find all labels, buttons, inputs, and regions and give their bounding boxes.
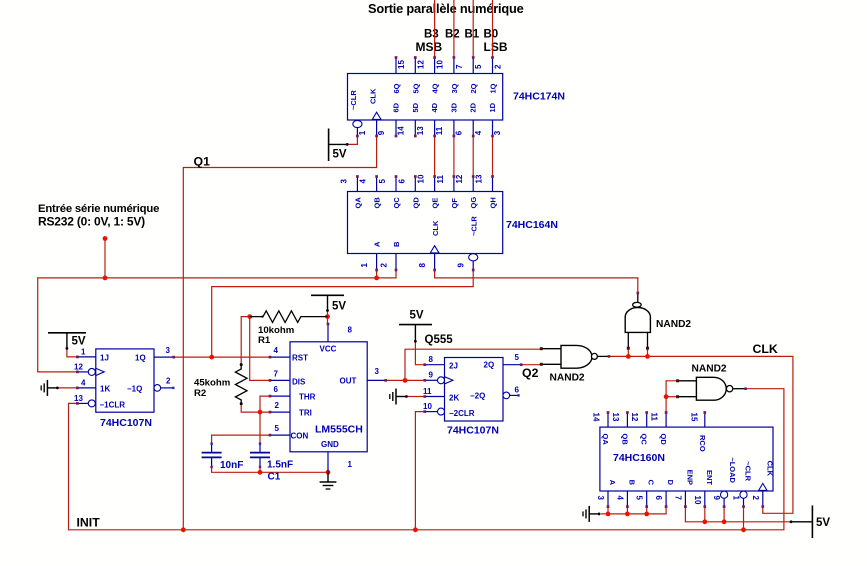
- svg-text:QD: QD: [659, 434, 668, 446]
- svg-text:7: 7: [274, 370, 279, 379]
- svg-text:QA: QA: [601, 434, 610, 446]
- svg-text:QF: QF: [450, 198, 459, 209]
- svg-text:3: 3: [166, 346, 171, 355]
- wire R1 left node to U3.DIS: [250, 317, 270, 381]
- 5V supply at FF2: [399, 310, 432, 343]
- svg-text:1: 1: [358, 130, 367, 135]
- svg-text:QE: QE: [431, 198, 440, 209]
- svg-text:12: 12: [416, 60, 425, 69]
- svg-text:2J: 2J: [449, 362, 458, 371]
- svg-text:15: 15: [689, 413, 698, 422]
- svg-text:1: 1: [360, 263, 369, 268]
- svg-text:10: 10: [423, 402, 432, 411]
- svg-text:13: 13: [74, 394, 83, 403]
- svg-text:74HC107N: 74HC107N: [100, 417, 152, 429]
- svg-text:10: 10: [436, 60, 445, 69]
- svg-text:4: 4: [359, 179, 368, 184]
- wire net Q1 : U1 CLK to INIT rail: [183, 136, 376, 530]
- svg-text:2: 2: [751, 496, 760, 501]
- svg-text:4: 4: [274, 346, 279, 355]
- svg-text:VCC: VCC: [320, 344, 337, 353]
- svg-text:B3: B3: [424, 29, 439, 41]
- junction U2.A: [374, 276, 379, 281]
- svg-text:2K: 2K: [449, 394, 459, 403]
- IC U4 74HC160N counter: [592, 411, 775, 508]
- svg-text:B1: B1: [465, 29, 480, 41]
- svg-text:5: 5: [515, 353, 520, 362]
- svg-text:3: 3: [339, 179, 348, 184]
- wire 5V to FF2.2J: [415, 341, 424, 364]
- junction NAND1 input B: [645, 354, 650, 359]
- svg-text:QD: QD: [411, 197, 420, 209]
- svg-text:DIS: DIS: [292, 378, 306, 387]
- svg-text:1K: 1K: [100, 385, 110, 394]
- junction VCC node: [325, 314, 330, 319]
- wire serial input to U2.A/B and FF1 clock: [38, 270, 396, 372]
- svg-text:RST: RST: [292, 354, 308, 363]
- svg-text:4Q: 4Q: [431, 83, 440, 93]
- svg-text:2Q: 2Q: [469, 83, 478, 93]
- svg-text:4: 4: [474, 130, 483, 135]
- svg-text:4D: 4D: [430, 102, 439, 112]
- gate NAND1 (inverter, output up to U2 clock): [625, 293, 691, 350]
- svg-text:12: 12: [455, 174, 464, 183]
- svg-text:1Q: 1Q: [489, 83, 498, 93]
- svg-text:A: A: [608, 480, 617, 486]
- svg-text:11: 11: [436, 174, 445, 183]
- svg-text:5: 5: [635, 496, 644, 501]
- 5V supply at U1: [329, 129, 349, 162]
- svg-text:2D: 2D: [469, 102, 478, 112]
- svg-text:QC: QC: [392, 197, 401, 209]
- junction RST row: [209, 355, 214, 360]
- wire net INIT rail with FF1.~1CLR and NAND3 output: [69, 389, 784, 530]
- svg-text:QC: QC: [640, 434, 649, 446]
- wire serial input stub: [104, 239, 106, 278]
- svg-text:5V: 5V: [816, 517, 830, 529]
- svg-text:5V: 5V: [410, 310, 424, 322]
- svg-text:5: 5: [378, 179, 387, 184]
- junction R1-R2-DIS node: [247, 314, 252, 319]
- svg-text:74HC174N: 74HC174N: [513, 91, 565, 103]
- svg-text:74HC160N: 74HC160N: [613, 452, 665, 464]
- svg-text:9: 9: [377, 130, 386, 135]
- wire B3 output vertical: [434, 0, 436, 58]
- svg-text:GND: GND: [321, 440, 339, 449]
- svg-text:NAND2: NAND2: [692, 364, 727, 375]
- svg-text:3: 3: [596, 496, 605, 501]
- svg-text:QA: QA: [353, 197, 362, 209]
- svg-text:14: 14: [592, 413, 601, 422]
- gate NAND3 (inverter on U4.QD -> INIT): [676, 364, 746, 401]
- svg-text:−2CLR: −2CLR: [449, 409, 475, 418]
- svg-text:11: 11: [423, 387, 432, 396]
- wire 5V to FF1.1J: [67, 348, 78, 357]
- svg-text:~CLR: ~CLR: [744, 461, 753, 481]
- wire ground to FF2.2K: [406, 396, 424, 398]
- svg-text:CLK: CLK: [368, 88, 377, 104]
- svg-text:6: 6: [274, 385, 279, 394]
- svg-text:Sortie parallèle numérique: Sortie parallèle numérique: [368, 1, 524, 16]
- svg-text:6: 6: [397, 179, 406, 184]
- svg-text:5V: 5V: [332, 301, 346, 313]
- resistor R1 10kohm: [250, 311, 328, 346]
- svg-text:7: 7: [673, 496, 682, 501]
- svg-text:−1CLR: −1CLR: [100, 401, 126, 410]
- junction FF2 clear-INIT: [413, 527, 418, 532]
- svg-text:ENP: ENP: [685, 470, 694, 485]
- junction Q555 node: [403, 378, 408, 383]
- 5V supply at U4: [790, 506, 831, 539]
- junction C1 bottom: [258, 470, 263, 475]
- svg-text:NAND2: NAND2: [550, 373, 585, 384]
- svg-text:Q1: Q1: [194, 155, 211, 169]
- IC FF2 74HC107N (right JK flip-flop): [423, 353, 523, 437]
- wire U2.CLK to NAND1 output: [435, 270, 638, 293]
- svg-text:OUT: OUT: [340, 377, 357, 386]
- ground below U3 (555): [320, 472, 337, 489]
- svg-text:RCO: RCO: [698, 435, 707, 452]
- capacitor 10nF: [202, 443, 244, 472]
- svg-text:3D: 3D: [449, 102, 458, 112]
- svg-text:QG: QG: [469, 197, 478, 209]
- IC U3 LM555CH timer: [269, 323, 387, 473]
- svg-text:10: 10: [417, 174, 426, 183]
- svg-text:6: 6: [455, 130, 464, 135]
- svg-text:9: 9: [457, 263, 466, 268]
- svg-text:RS232 (0: 0V, 1: 5V): RS232 (0: 0V, 1: 5V): [38, 215, 145, 229]
- svg-text:13: 13: [611, 413, 620, 422]
- IC U2 74HC164N shift register: [339, 174, 558, 271]
- svg-text:13: 13: [416, 126, 425, 135]
- svg-text:1D: 1D: [488, 102, 497, 112]
- wire NAND1 input stubs: [627, 349, 629, 356]
- wire net Q2 : FF2.2Q to NAND2 input: [521, 364, 541, 366]
- svg-text:CON: CON: [291, 432, 309, 441]
- wire B2 output vertical: [453, 0, 455, 58]
- wire FF1.1Q to U3.RST: [174, 356, 270, 358]
- wire FF2.~2CLR to INIT rail: [415, 412, 424, 530]
- wire 5V rail to U4 ENP ENT ~LOAD: [685, 507, 791, 522]
- junction U4.~LOAD 5V: [722, 519, 727, 524]
- svg-text:3Q: 3Q: [450, 83, 459, 93]
- svg-text:Entrée série numérique: Entrée série numérique: [38, 203, 159, 215]
- svg-text:8: 8: [348, 326, 353, 335]
- ground at FF1.1K: [41, 380, 59, 396]
- svg-text:QH: QH: [489, 197, 498, 208]
- svg-text:CLK: CLK: [765, 461, 774, 477]
- svg-text:~LOAD: ~LOAD: [728, 457, 737, 483]
- svg-text:LM555CH: LM555CH: [315, 424, 363, 436]
- junction Q1-INIT: [181, 527, 186, 532]
- svg-text:D: D: [666, 480, 675, 486]
- svg-text:74HC107N: 74HC107N: [447, 425, 499, 437]
- svg-text:4: 4: [615, 496, 624, 501]
- junction U4.ENT 5V: [702, 519, 707, 524]
- svg-text:QB: QB: [620, 434, 629, 446]
- svg-text:R1: R1: [258, 335, 271, 346]
- svg-text:NAND2: NAND2: [656, 319, 691, 330]
- svg-text:−1Q: −1Q: [127, 385, 142, 394]
- svg-text:1: 1: [81, 348, 86, 357]
- wire B0 output vertical: [492, 0, 494, 58]
- svg-text:6D: 6D: [392, 102, 401, 112]
- svg-text:11: 11: [435, 126, 444, 135]
- svg-text:CLK: CLK: [753, 342, 778, 356]
- junction TRI node: [258, 410, 263, 415]
- junction serial stub: [103, 276, 108, 281]
- svg-text:10: 10: [693, 496, 702, 505]
- svg-text:5: 5: [275, 424, 280, 433]
- svg-text:1Q: 1Q: [135, 354, 146, 363]
- IC FF1 74HC107N (left JK flip-flop): [74, 346, 175, 429]
- svg-text:9: 9: [429, 371, 434, 380]
- svg-text:5: 5: [474, 64, 483, 69]
- svg-text:6: 6: [654, 496, 663, 501]
- svg-text:6: 6: [515, 386, 520, 395]
- svg-text:5Q: 5Q: [411, 83, 420, 93]
- wire U1.4D to U2.QE: [434, 136, 436, 177]
- svg-text:1.5nF: 1.5nF: [267, 460, 293, 471]
- svg-text:~CLR: ~CLR: [349, 90, 358, 110]
- NAND3 output pin dot: [744, 387, 747, 390]
- svg-text:12: 12: [630, 413, 639, 422]
- gate NAND2 (middle, Q555/Q2 -> CLK): [540, 345, 609, 383]
- svg-text:B2: B2: [445, 29, 460, 41]
- svg-text:8: 8: [429, 355, 434, 364]
- svg-text:~CLR: ~CLR: [470, 216, 479, 236]
- ground at U4 inputs: [583, 506, 600, 522]
- svg-text:6Q: 6Q: [392, 83, 401, 93]
- svg-text:4: 4: [81, 379, 86, 388]
- 5V supply at U3 (555): [311, 295, 346, 312]
- svg-text:15: 15: [397, 60, 406, 69]
- junction U3.GND: [326, 470, 331, 475]
- junction U4.C gnd: [644, 512, 649, 517]
- svg-text:5V: 5V: [333, 149, 347, 161]
- svg-text:74HC164N: 74HC164N: [506, 219, 558, 231]
- svg-text:10nF: 10nF: [220, 460, 243, 471]
- junction U4.A gnd: [606, 512, 611, 517]
- svg-text:13: 13: [475, 174, 484, 183]
- svg-text:R2: R2: [194, 388, 206, 399]
- wire R1 left to R2 top: [241, 317, 250, 365]
- svg-text:C: C: [647, 480, 656, 486]
- svg-text:3: 3: [375, 367, 380, 376]
- wire TRI node to U3.THR: [260, 396, 270, 412]
- svg-text:5V: 5V: [72, 336, 86, 348]
- junction U4 clear-INIT: [741, 527, 746, 532]
- wire U1 pin1 to 5V: [347, 136, 357, 144]
- IC U1 74HC174N hex D flip-flop: [348, 56, 565, 137]
- svg-text:Q555: Q555: [425, 334, 454, 346]
- wire U4.QD to NAND3 inputs: [666, 381, 677, 413]
- svg-text:MSB: MSB: [416, 40, 443, 54]
- svg-text:2Q: 2Q: [484, 361, 495, 370]
- serial input terminal: [103, 236, 108, 241]
- svg-text:7: 7: [455, 64, 464, 69]
- wire U3.CON to C2 top: [212, 435, 270, 444]
- svg-text:1J: 1J: [100, 354, 109, 363]
- wire U1.3D to U2.QF: [453, 136, 455, 177]
- wire net Q555 : U3.OUT to FF2 clock and NAND2 input: [386, 379, 425, 381]
- capacitor C1 1.5nF: [250, 443, 293, 483]
- NAND1 output pin dot: [637, 292, 640, 295]
- wire U2.~CLR to node at RST row: [212, 270, 474, 357]
- wire ground rail to U4 A B C D: [601, 507, 666, 514]
- svg-text:9: 9: [712, 496, 721, 501]
- wire R2 bottom to U3.TRI node: [241, 404, 270, 412]
- svg-text:Q2: Q2: [522, 366, 539, 380]
- svg-text:B: B: [627, 480, 636, 486]
- wire net CLK : NAND2 output to U4.CLK: [609, 356, 793, 513]
- svg-text:1: 1: [732, 496, 741, 501]
- wire TRI node to C1 top: [259, 412, 261, 444]
- svg-text:TRI: TRI: [299, 409, 312, 418]
- svg-text:12: 12: [74, 363, 83, 372]
- svg-text:5D: 5D: [411, 102, 420, 112]
- wire cap bottoms to U3.GND: [212, 467, 328, 472]
- svg-text:8: 8: [418, 263, 427, 268]
- ground at FF2.2K: [390, 389, 408, 405]
- svg-text:B: B: [392, 241, 401, 247]
- wire U1.2D to U2.QG: [472, 136, 474, 177]
- wire C1 bottom stub: [259, 467, 261, 472]
- svg-text:C1: C1: [268, 472, 281, 483]
- svg-text:QB: QB: [373, 197, 382, 209]
- wire ground to FF1.1K: [57, 387, 77, 389]
- svg-text:LSB: LSB: [484, 40, 508, 54]
- wire U4.~CLR to INIT rail: [743, 507, 745, 530]
- svg-text:2: 2: [275, 401, 280, 410]
- wire 5V to U3.VCC: [327, 311, 329, 325]
- svg-text:2: 2: [380, 263, 389, 268]
- svg-text:CLK: CLK: [431, 220, 440, 236]
- 5V supply at FF1: [48, 333, 86, 350]
- NAND2 output pin dot: [608, 355, 611, 358]
- svg-text:A: A: [373, 241, 382, 247]
- svg-text:14: 14: [397, 126, 406, 135]
- resistor R2 45kohm: [194, 363, 247, 405]
- svg-text:45kohm: 45kohm: [194, 378, 230, 389]
- svg-text:1: 1: [348, 460, 353, 469]
- wire U1.1D to U2.QH: [492, 136, 494, 177]
- svg-text:2: 2: [166, 377, 171, 386]
- svg-text:3: 3: [493, 130, 502, 135]
- svg-text:THR: THR: [299, 393, 316, 402]
- svg-text:2: 2: [494, 64, 503, 69]
- junction U4.B gnd: [625, 512, 630, 517]
- wire B1 output vertical: [472, 0, 474, 58]
- svg-text:B0: B0: [484, 29, 499, 41]
- svg-text:INIT: INIT: [77, 516, 101, 530]
- svg-text:ENT: ENT: [705, 470, 714, 485]
- svg-text:11: 11: [650, 413, 659, 422]
- junction QD node: [664, 394, 669, 399]
- svg-text:−2Q: −2Q: [470, 392, 485, 401]
- junction NAND1 input A: [626, 354, 631, 359]
- wire U2.A stub: [376, 270, 378, 278]
